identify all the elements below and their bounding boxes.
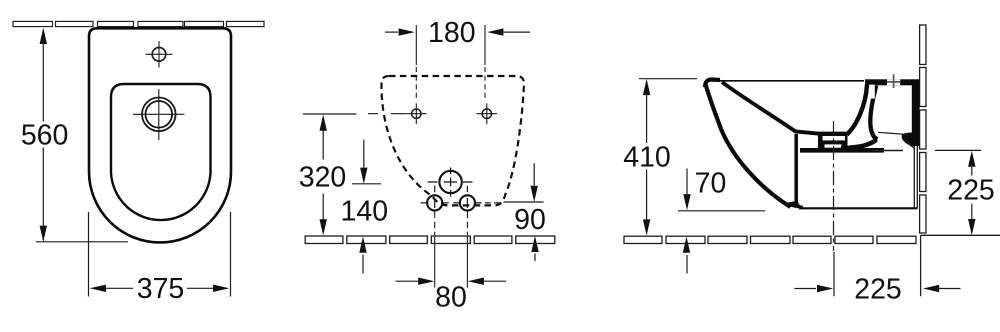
jet hole right [460, 195, 475, 210]
arrow 180 left [399, 28, 415, 35]
dimension 560 [36, 30, 128, 242]
dimension 225 right [872, 150, 981, 219]
svg-text:320: 320 [299, 162, 347, 194]
dimension 140 [352, 140, 381, 274]
under-blob thin line [879, 150, 903, 152]
bidet profile: top edge thin line [712, 80, 864, 82]
arrow 140 mid [360, 168, 367, 184]
wall tile 1 [13, 21, 53, 26]
drain white step 2 [825, 144, 842, 147]
floor tile m2 [347, 236, 386, 244]
svg-text:80: 80 [435, 282, 467, 314]
wall tile 3 [98, 21, 134, 26]
arrow 90 mid [531, 186, 538, 202]
rim band top right [865, 79, 920, 85]
svg-text:225: 225 [854, 274, 902, 306]
mounting hole left [406, 103, 427, 124]
arrow 225r bottom [968, 219, 975, 235]
center line (dash-dot) [833, 121, 835, 251]
arrow 90 floor [531, 236, 538, 252]
wall tile 5 [185, 21, 224, 26]
wall tile r1 [920, 25, 926, 65]
floor tile r6 [835, 236, 873, 243]
arrow 70 mid [683, 194, 690, 210]
drain assembly block [800, 133, 884, 153]
flush channel outer curve [870, 86, 877, 140]
svg-text:70: 70 [695, 168, 727, 200]
arrow 410 top [643, 79, 650, 95]
90 extension dashes to the right [476, 201, 544, 204]
floor tile m4 [431, 236, 470, 244]
jet hole right ticks [453, 186, 481, 208]
mounting cross [887, 74, 900, 88]
dimension 320 [303, 113, 356, 115]
arrow 80 right [468, 278, 484, 285]
arrow 70 floor [683, 237, 690, 253]
flush channel bottom sweep [841, 140, 877, 149]
dimension 225 bottom [794, 288, 960, 290]
arrow 225b right [923, 285, 939, 292]
dimension 410 [639, 79, 697, 220]
floor tile r5 [793, 236, 831, 243]
floor tile m3 [390, 236, 428, 244]
wall tile r5 [920, 195, 926, 233]
dimension 90 [533, 163, 536, 261]
bidet profile: front inner / bowl front curve [722, 82, 847, 134]
wall tile r4 [920, 153, 926, 192]
center line below floor [833, 252, 835, 296]
bowl back curve [847, 85, 867, 135]
floor tile r3 [708, 236, 747, 243]
dashed bidet silhouette [381, 76, 524, 205]
arrow 225b left [817, 285, 833, 292]
svg-text:560: 560 [21, 120, 69, 152]
floor tile r2 [666, 236, 705, 243]
arrow 320 top [320, 115, 327, 131]
center lines of jet holes down to 80 dim [435, 212, 468, 288]
svg-text:180: 180 [428, 17, 476, 49]
wall tile 6 [227, 21, 265, 26]
wall base corner lines [921, 235, 1000, 296]
bidet profile: top-left corner thick [705, 80, 720, 88]
back double lines lower [914, 146, 917, 209]
arrow 180 right [487, 28, 503, 35]
jet hole left [427, 195, 442, 210]
tap hole crosshair [146, 41, 173, 68]
arrow up 560 [40, 28, 47, 44]
bidet inner rim outline [111, 84, 211, 220]
drain white step 1 [823, 136, 846, 140]
dimension 375 [89, 212, 231, 297]
back band transition diagonal [907, 143, 915, 149]
wall tile 4 [138, 21, 183, 26]
floor tile m1 [305, 236, 343, 244]
bidet profile: front outer curve [706, 84, 791, 207]
underside line [799, 207, 917, 209]
arrow 140 floor [359, 237, 366, 253]
wedge bottom corner fill [788, 201, 798, 208]
bidet profile: front wedge right edge [796, 134, 803, 208]
arrow 410 bottom [643, 219, 650, 235]
faucet circle front [428, 168, 473, 197]
arrow down 560 [40, 226, 47, 242]
rim band cross gap white [887, 79, 900, 85]
rim slot white [869, 85, 874, 99]
svg-text:375: 375 [137, 273, 185, 305]
wall tile r2 [920, 68, 926, 107]
floor tile r4 [751, 236, 791, 243]
floor tile r7 [877, 236, 916, 243]
channel bottom thin line [878, 132, 909, 134]
wall tile r3 [920, 110, 926, 149]
jet hole left ticks [421, 186, 449, 208]
svg-text:225: 225 [947, 174, 995, 206]
center line dashes to left hole [368, 113, 406, 115]
channel bottom blob [902, 133, 920, 146]
back band upper [912, 85, 920, 146]
dimension 80 [396, 280, 507, 282]
dimension 70 [678, 169, 765, 274]
floor tile m5 [474, 236, 512, 244]
arrow 80 left [418, 278, 434, 285]
svg-text:410: 410 [623, 142, 671, 174]
arrow right 375 [213, 285, 229, 292]
dimension 180 [385, 31, 530, 33]
arrow left 375 [90, 285, 106, 292]
svg-text:90: 90 [514, 204, 546, 236]
wall tile 2 [56, 21, 94, 26]
drain hole double circle [133, 89, 185, 140]
floor tile r1 [624, 236, 662, 243]
floor tile m6 [516, 236, 555, 244]
svg-text:140: 140 [341, 196, 389, 228]
extension verticals from holes [416, 25, 485, 101]
mounting hole right [477, 103, 498, 124]
arrow 225r top [968, 151, 975, 167]
bidet outer outline (top view) [89, 28, 231, 242]
arrow 320 bottom [320, 219, 327, 235]
